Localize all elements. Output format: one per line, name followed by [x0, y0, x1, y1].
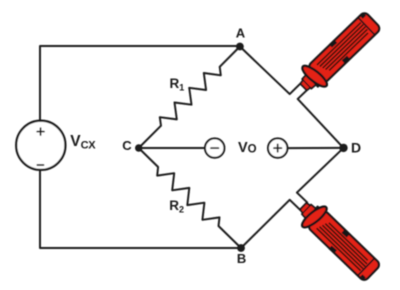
- svg-text:C: C: [122, 138, 132, 153]
- svg-text:B: B: [237, 251, 246, 266]
- svg-text:VO: VO: [238, 140, 257, 156]
- svg-text:A: A: [236, 26, 246, 41]
- svg-text:D: D: [351, 139, 361, 155]
